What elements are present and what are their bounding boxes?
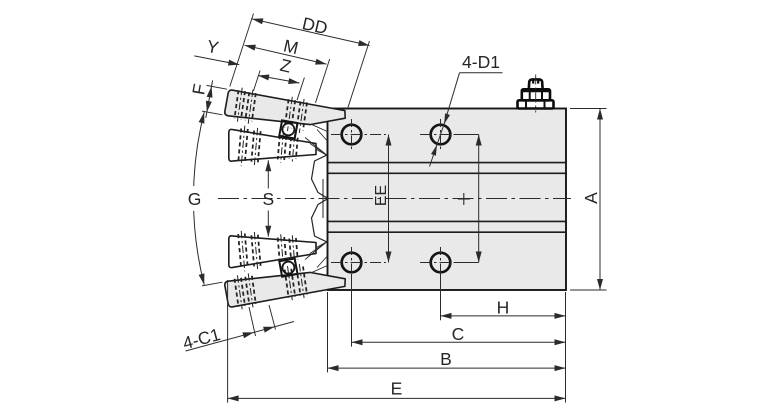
lower pivot pin	[279, 259, 297, 277]
gripper body	[328, 109, 567, 291]
dimension Y	[194, 56, 239, 66]
dimension F	[202, 80, 227, 118]
mounting hole top-right	[431, 125, 451, 145]
dimension S	[265, 160, 271, 236]
upper jaw finger	[225, 90, 345, 125]
adjusting nut stack	[518, 79, 554, 108]
upper lever hidden screw holes	[238, 126, 298, 167]
lower finger hidden screw holes	[235, 264, 308, 309]
dimension C	[352, 274, 566, 347]
svg-text:4-D1: 4-D1	[462, 52, 500, 72]
svg-text:G: G	[188, 189, 202, 209]
extension line finger tip	[348, 41, 370, 109]
dimension Z	[258, 75, 300, 85]
dimension H	[441, 272, 566, 320]
dimension A	[570, 109, 607, 291]
dimension B	[328, 292, 566, 372]
upper jaw lever	[229, 129, 316, 161]
horizontal centerline	[218, 198, 571, 200]
svg-text:H: H	[497, 298, 510, 318]
svg-text:C: C	[452, 324, 465, 344]
mounting hole bottom-right	[431, 253, 451, 273]
body groove line 2	[328, 172, 567, 174]
svg-text:A: A	[581, 192, 601, 204]
jaw root linkage lines	[305, 124, 327, 273]
extension line hole group 2a	[297, 78, 304, 101]
body groove line 3	[328, 220, 567, 222]
svg-text:EE: EE	[373, 185, 390, 206]
body groove line 4	[328, 231, 567, 233]
body center mark	[458, 193, 470, 205]
right holes crosshairs	[420, 119, 457, 278]
extension line finger left edge	[230, 14, 254, 87]
extension line hole group 2b	[316, 59, 330, 103]
4-D1 leader	[430, 73, 503, 167]
svg-text:B: B	[440, 349, 452, 369]
nut centerline	[535, 75, 537, 113]
lower jaw finger	[225, 272, 345, 307]
svg-text:E: E	[391, 379, 403, 399]
right hole-pair dimension	[455, 135, 482, 263]
mounting hole bottom-left	[342, 253, 362, 273]
lower jaw lever	[229, 236, 316, 268]
label G	[182, 186, 207, 211]
jaw root cavity outline	[312, 155, 328, 242]
right extension line	[565, 292, 567, 403]
lower finger edge extension	[202, 282, 222, 286]
dimension M	[245, 45, 327, 65]
dimension DD	[252, 18, 370, 46]
left holes crosshairs	[331, 119, 386, 274]
dimension E	[228, 280, 566, 403]
svg-text:S: S	[262, 189, 274, 209]
lower lever hidden screw holes	[238, 231, 298, 271]
mounting hole top-left	[342, 125, 362, 145]
angle arc G	[193, 112, 204, 285]
body groove line 1	[328, 162, 567, 164]
dimension 4-C1	[186, 305, 295, 351]
upper finger hidden screw holes	[235, 88, 308, 133]
dimension EE	[386, 135, 392, 263]
extension line hole group 1	[254, 71, 261, 91]
upper pivot pin	[279, 120, 297, 138]
